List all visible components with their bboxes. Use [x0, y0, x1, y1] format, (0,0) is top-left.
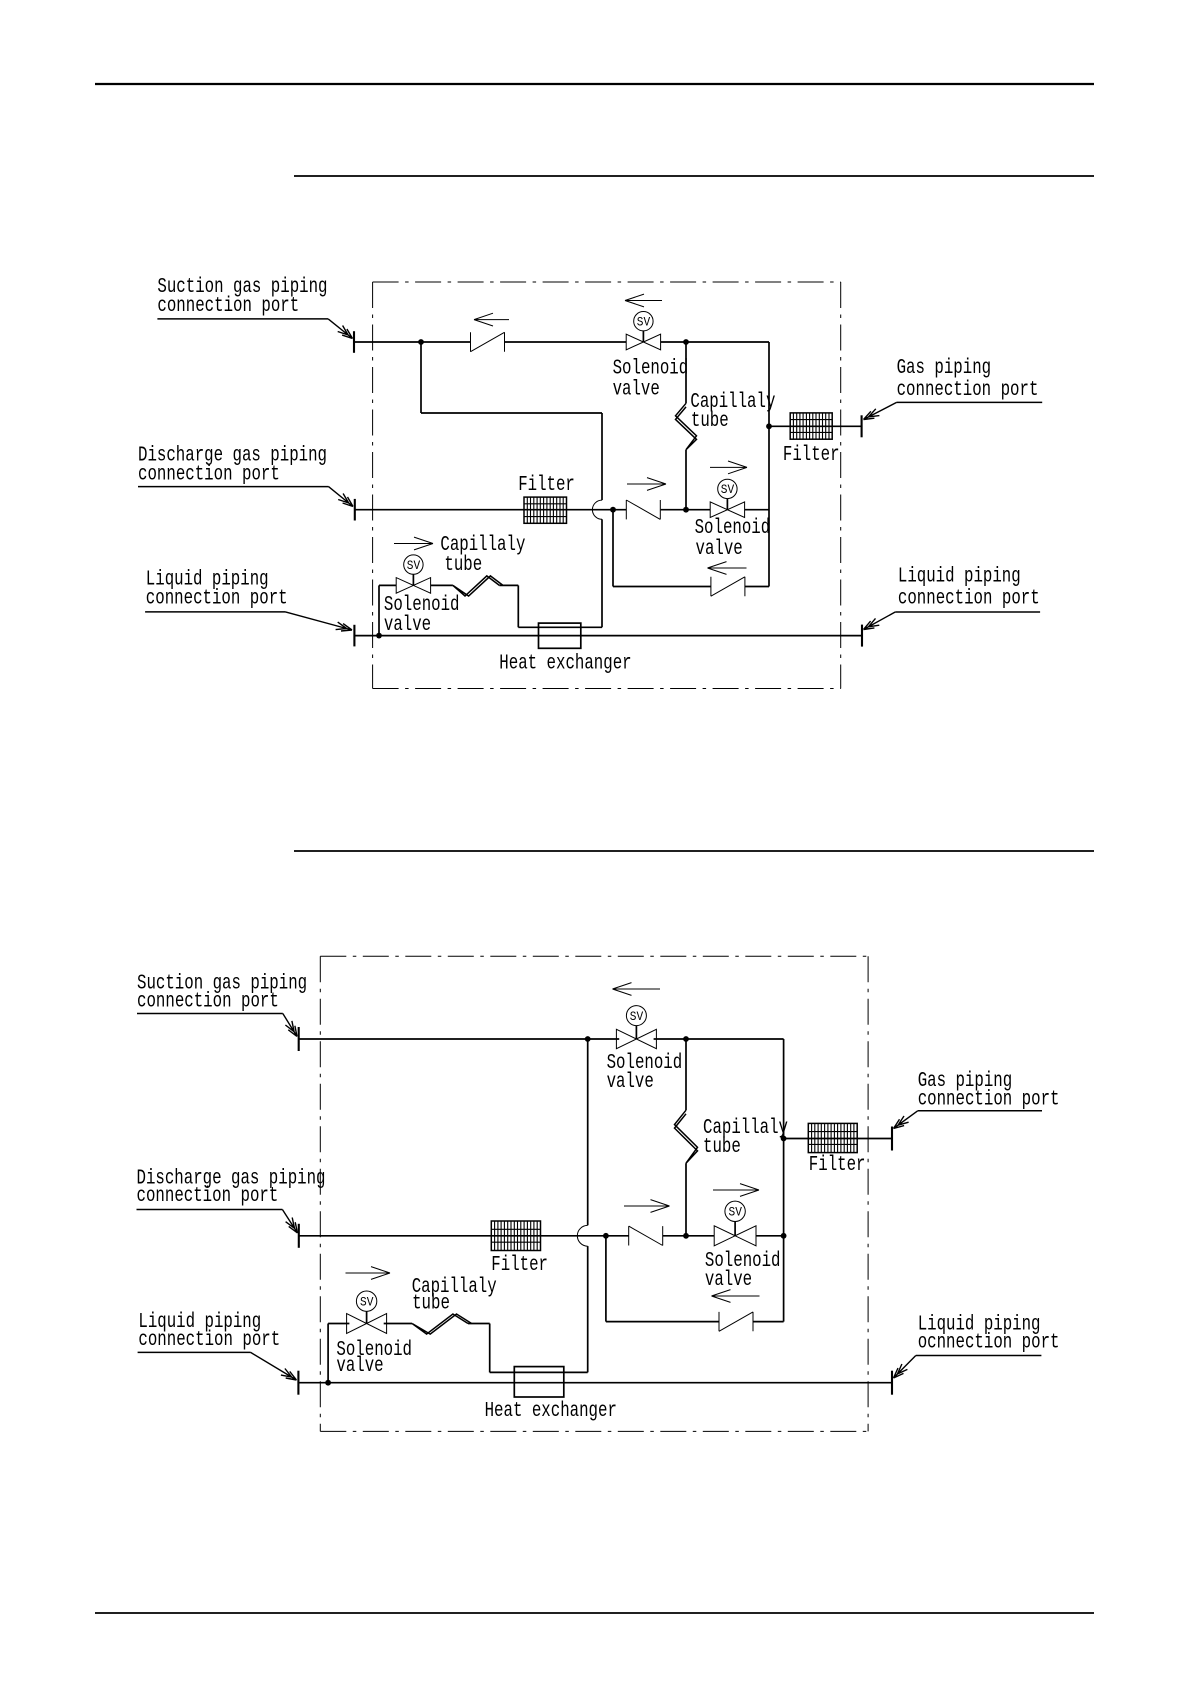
svg-text:valve: valve — [607, 1071, 654, 1094]
filter F2 (gas) — [790, 413, 832, 439]
top rule — [95, 83, 1094, 85]
node gas branch 2 — [781, 1136, 787, 1142]
suction gas pipe — [354, 341, 769, 343]
label gas port (d1) — [864, 357, 1043, 420]
label filter F4 — [809, 1154, 866, 1177]
bottom rule — [95, 1612, 1094, 1614]
unit outline box 2 (dash-dot) — [320, 956, 868, 1431]
node capillary to discharge 2 — [683, 1233, 689, 1239]
svg-text:connection port: connection port — [137, 1185, 279, 1208]
port discharge (d1) — [354, 499, 356, 521]
label capillary C2 — [440, 534, 525, 577]
svg-text:connection port: connection port — [157, 295, 299, 318]
label filter F3 — [491, 1254, 548, 1277]
label discharge port (d1) — [138, 445, 353, 507]
svg-text:Gas piping: Gas piping — [897, 357, 992, 380]
svg-text:tube: tube — [703, 1136, 741, 1159]
filter F4 (gas) — [808, 1123, 857, 1152]
liquid branch wire — [379, 585, 518, 635]
section rule 2 — [294, 850, 1094, 852]
port liquid right (d2) — [891, 1371, 893, 1395]
label liquid port left (d2) — [138, 1311, 297, 1380]
flow arrow left (solenoid SV1) — [625, 294, 662, 307]
pipe crossing hop 2 — [577, 1225, 587, 1246]
flow arrow right (discharge) — [627, 478, 666, 491]
node liquid branch 2 — [325, 1380, 331, 1386]
unit outline box (dash-dot) — [373, 282, 841, 689]
svg-text:connection port: connection port — [137, 991, 279, 1014]
svg-text:tube: tube — [444, 554, 482, 577]
label suction port (d2) — [137, 973, 307, 1037]
capillary tube C3 — [675, 1110, 698, 1163]
svg-text:valve: valve — [336, 1355, 383, 1378]
capillary riser wire 2 — [685, 1039, 687, 1236]
liquid pipe 2 — [298, 1382, 892, 1384]
flow arrow right (liquid SV3) — [394, 537, 433, 550]
check valve bypass — [711, 577, 745, 596]
bypass pipe 2 — [606, 1236, 784, 1322]
subcool loop wire — [421, 342, 602, 627]
svg-text:connection port: connection port — [918, 1089, 1060, 1112]
node gas branch — [766, 423, 772, 429]
node liquid branch — [376, 633, 382, 639]
node bypass branch — [610, 507, 616, 513]
node discharge to header 2 — [781, 1233, 787, 1239]
capillary tube C2 — [453, 576, 503, 596]
svg-text:SV: SV — [721, 483, 735, 497]
gas pipe — [769, 425, 862, 427]
check valve bypass 2 — [719, 1312, 753, 1331]
svg-text:Heat exchanger: Heat exchanger — [499, 652, 631, 675]
label liquid port right (d2) — [894, 1313, 1060, 1378]
flow arrow left (bypass) — [708, 562, 747, 575]
flow arrow right (solenoid SV2) — [710, 461, 747, 474]
port suction (d2) — [298, 1027, 300, 1051]
heat exchanger HX2 — [514, 1367, 564, 1397]
svg-text:SV: SV — [729, 1206, 743, 1220]
svg-text:Filter: Filter — [491, 1254, 548, 1277]
label heat exchanger — [499, 652, 631, 675]
label capillary C3 — [703, 1117, 788, 1159]
port liquid right (d1) — [861, 625, 863, 647]
discharge gas pipe — [354, 509, 769, 511]
svg-text:valve: valve — [613, 378, 660, 401]
label filter F1 — [518, 474, 575, 497]
solenoid valve SV4 — [616, 1006, 656, 1049]
label capillary C4 — [412, 1276, 497, 1316]
bypass pipe — [613, 510, 769, 587]
port liquid left (d2) — [297, 1371, 299, 1395]
node bypass branch 2 — [603, 1233, 609, 1239]
svg-text:valve: valve — [705, 1269, 752, 1292]
svg-text:Solenoid: Solenoid — [613, 357, 689, 380]
port liquid left (d1) — [353, 625, 355, 647]
capillary riser wire — [685, 342, 687, 510]
svg-text:SV: SV — [637, 315, 651, 329]
solenoid valve SV2 — [710, 479, 744, 517]
node SV4 outlet — [683, 1036, 689, 1042]
check valve discharge — [626, 500, 660, 519]
pipe crossing hop — [592, 500, 602, 519]
check valve discharge 2 — [629, 1226, 663, 1245]
solenoid valve SV1 — [626, 312, 660, 350]
svg-text:SV: SV — [360, 1295, 374, 1309]
label SV5 — [705, 1250, 781, 1292]
svg-text:valve: valve — [384, 614, 431, 637]
label SV3 — [384, 594, 460, 637]
node suction junction — [418, 339, 424, 345]
svg-text:tube: tube — [412, 1293, 450, 1316]
label SV4 — [607, 1052, 683, 1094]
label filter F2 — [783, 444, 840, 467]
svg-text:SV: SV — [407, 559, 421, 573]
liquid branch wire 2 — [328, 1324, 490, 1383]
svg-text:connection port: connection port — [897, 379, 1039, 402]
svg-text:tube: tube — [691, 410, 729, 433]
label liquid port left (d1) — [145, 569, 352, 632]
svg-text:SV: SV — [630, 1010, 644, 1024]
svg-text:ocnnection port: ocnnection port — [918, 1332, 1060, 1355]
label gas port (d2) — [894, 1070, 1060, 1129]
heat exchanger HX1 — [539, 623, 581, 648]
svg-text:Filter: Filter — [809, 1154, 866, 1177]
right header pipe 2 — [783, 1039, 785, 1322]
solenoid valve SV6 — [347, 1291, 387, 1334]
check valve suction — [471, 332, 505, 351]
svg-text:Heat exchanger: Heat exchanger — [485, 1400, 617, 1423]
svg-text:valve: valve — [696, 538, 743, 561]
subcool riser wire 2 — [490, 1039, 588, 1372]
solenoid valve SV3 — [396, 555, 430, 593]
flow arrow left (solenoid SV4) — [613, 983, 661, 996]
gas pipe 2 — [784, 1138, 892, 1140]
section rule 1 — [294, 175, 1094, 177]
solenoid valve SV5 — [714, 1201, 756, 1246]
capillary tube C4 — [412, 1314, 472, 1334]
svg-text:Solenoid: Solenoid — [695, 517, 771, 540]
label discharge port (d2) — [137, 1167, 326, 1233]
svg-text:connection port: connection port — [138, 464, 280, 487]
label SV2 — [695, 517, 771, 561]
svg-text:Filter: Filter — [783, 444, 840, 467]
liquid pipe — [354, 635, 862, 637]
label suction port (d1) — [157, 276, 352, 339]
flow arrow right (solenoid SV5) — [713, 1184, 759, 1197]
filter F3 (discharge) — [491, 1221, 540, 1251]
filter F1 (discharge) — [524, 497, 567, 523]
svg-text:connection port: connection port — [898, 587, 1040, 610]
label heat exchanger 2 — [485, 1400, 617, 1423]
node suction junction 2 — [585, 1036, 591, 1042]
flow arrow right (liquid SV6) — [346, 1267, 391, 1280]
node capillary to discharge — [683, 507, 689, 513]
label liquid port right (d1) — [864, 566, 1041, 630]
svg-text:Liquid piping: Liquid piping — [898, 566, 1021, 589]
label capillary C1 — [690, 391, 775, 433]
port gas right (d1) — [861, 415, 863, 437]
svg-text:connection port: connection port — [146, 588, 288, 611]
node SV1 outlet — [683, 339, 689, 345]
port suction (d1) — [353, 331, 355, 353]
svg-text:Filter: Filter — [518, 474, 575, 497]
suction gas pipe 2 — [299, 1038, 784, 1040]
capillary tube C1 — [676, 403, 697, 449]
port gas right (d2) — [891, 1127, 893, 1151]
flow arrow right (discharge 2) — [624, 1200, 670, 1213]
flow arrow left (suction) — [474, 313, 509, 326]
label SV1 — [613, 357, 689, 401]
svg-text:connection port: connection port — [138, 1329, 280, 1352]
flow arrow left (bypass 2) — [712, 1290, 760, 1303]
port discharge (d2) — [298, 1224, 300, 1248]
right header pipe — [768, 342, 770, 587]
label SV6 — [336, 1339, 412, 1378]
discharge gas pipe 2 — [299, 1235, 784, 1237]
